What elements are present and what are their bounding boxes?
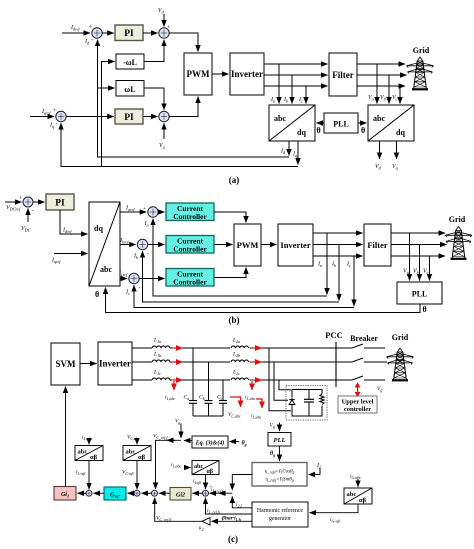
svg-text:-: -: [32, 209, 34, 215]
wire SB0 to PI: [33, 201, 45, 203]
svg-text:Inverter: Inverter: [231, 69, 263, 79]
svg-text:VDCref: VDCref: [6, 205, 21, 212]
wire theta feedback B: [106, 288, 427, 315]
wire beta-har to k2 amp: [212, 516, 253, 522]
wire Icref: [118, 271, 128, 279]
node Idref input: [62, 25, 93, 34]
Current Controller a: [166, 203, 214, 221]
wire SBb to CCb: [148, 244, 165, 246]
wire i1ref-f path: [211, 475, 252, 495]
PLL block B: [397, 282, 442, 304]
Gi2 block: [170, 488, 191, 501]
block -wL: [116, 54, 144, 69]
svg-text:αβ: αβ: [207, 469, 214, 475]
Current Controller c: [166, 269, 214, 287]
svg-text:Ib: Ib: [283, 97, 288, 104]
wire GVC to SCL: [94, 492, 105, 494]
wire phase a to L1a: [132, 347, 152, 349]
node Vd output: [375, 141, 382, 171]
svg-text:iG,abc: iG,abc: [350, 474, 361, 481]
node Vq output: [392, 141, 398, 171]
svg-text:Ibref: Ibref: [119, 238, 129, 245]
svg-text:Vg: Vg: [377, 386, 382, 392]
wire junction to summer SC3: [210, 492, 233, 494]
svg-text:Vc: Vc: [423, 269, 429, 276]
abc-dq transform T1: [269, 105, 315, 141]
svg-text:Vd: Vd: [375, 164, 382, 171]
wire i1ref-h to SC3 bottom: [206, 498, 253, 516]
svg-text:Icref: Icref: [118, 271, 128, 278]
svg-text:dq: dq: [396, 128, 405, 137]
breaker switch phase a: [352, 344, 385, 348]
wire S3 to PI2: [66, 116, 114, 118]
Upper level controller block: [338, 396, 377, 413]
Filter block A: [329, 53, 357, 96]
svg-text:Vd: Vd: [158, 8, 165, 15]
svg-text:iL,abc: iL,abc: [245, 395, 256, 402]
svg-text:-: -: [158, 218, 160, 224]
wire PI to dq-abc Idref: [60, 210, 88, 234]
svg-text:PLL: PLL: [274, 437, 286, 444]
svg-text:Inverter: Inverter: [99, 359, 131, 369]
node I2 input: [309, 463, 322, 475]
svg-text:Harmonic reference: Harmonic reference: [257, 507, 304, 514]
wire phase b to L1b: [132, 361, 152, 363]
wire iL-ab to summer SCL: [76, 461, 89, 490]
svg-text:Ib: Ib: [133, 254, 138, 261]
wire Eq out to VCref junction: [184, 440, 192, 442]
node theta-g input to Eq: [230, 441, 247, 447]
summer SBa: [144, 207, 160, 228]
PLL block C: [268, 433, 291, 447]
wire phase a L1a-PCC: [170, 347, 352, 349]
svg-text:(c): (c): [228, 534, 238, 544]
svg-text:Iqref: Iqref: [41, 109, 51, 116]
wire PWM to Inverter: [212, 73, 229, 75]
wire phase b Filter-Grid: [357, 74, 407, 76]
wire VC-ab to summer SC1: [122, 461, 137, 490]
svg-text:PI: PI: [124, 29, 134, 39]
wire phase b Inverter-Filter B: [313, 244, 363, 246]
wire wL out to S4 top: [144, 88, 164, 110]
load circuit loop: [292, 390, 322, 417]
svg-text:θ: θ: [423, 305, 427, 314]
Filter block B: [364, 224, 391, 266]
wire phase b Inverter-Filter: [264, 74, 328, 76]
wire Gi2 to SC2: [159, 492, 170, 494]
svg-text:Iq: Iq: [292, 152, 297, 159]
svg-text:-: -: [147, 251, 149, 257]
summer S3: [56, 111, 66, 121]
wire phase a Inverter-Filter B: [313, 232, 363, 234]
svg-text:L1b: L1b: [153, 352, 161, 358]
current arrow i2c red: [251, 379, 262, 381]
wire Iq feedback: [61, 123, 298, 166]
svg-text:Upper level: Upper level: [342, 399, 374, 406]
wire Ic feedback B: [134, 285, 354, 307]
Inverter block A: [230, 53, 264, 95]
wire phase c L1c-PCC: [170, 379, 352, 381]
wire S1 to PI: [102, 32, 114, 34]
svg-text:dq: dq: [297, 128, 306, 137]
svg-text:L1c: L1c: [153, 370, 161, 376]
svg-text:generator: generator: [269, 516, 291, 522]
inductor L2a: [230, 338, 250, 349]
wire phase c Filter-Grid B: [391, 255, 445, 257]
PWM block B: [234, 224, 261, 266]
svg-text:-: -: [91, 37, 93, 43]
svg-text:L2b: L2b: [232, 352, 240, 358]
current arrow i2a red: [251, 347, 262, 349]
svg-text:Eq. (3)&(4): Eq. (3)&(4): [195, 440, 225, 447]
svg-text:Gi2: Gi2: [176, 493, 185, 499]
wire phase b Filter-Grid B: [391, 244, 447, 246]
wire Iq to -wL input: [102, 62, 115, 167]
wire S4 to PWM bottom: [169, 97, 198, 117]
load capacitor: [304, 390, 314, 417]
wire SVM to Inverter C: [80, 363, 97, 365]
svg-text:SVM: SVM: [56, 359, 77, 369]
svg-text:L2a: L2a: [232, 338, 240, 344]
PI controller A2: [115, 109, 143, 124]
wire Ib feedback B: [143, 251, 340, 302]
wire -wL out to S2 bottom: [144, 40, 164, 62]
summer SB0: [23, 197, 33, 207]
wire Iaref: [120, 206, 146, 213]
current arrow i1a red: [172, 347, 183, 349]
wire CCc to PWM bottom: [214, 268, 246, 278]
node Vq input: [159, 123, 165, 149]
Gi1 block: [54, 487, 76, 501]
block wL: [116, 81, 144, 97]
summer SC3: [203, 490, 209, 496]
PLL block A: [324, 113, 358, 133]
wire Id feedback: [98, 40, 290, 157]
svg-text:Ia: Ia: [270, 97, 275, 104]
svg-text:Va: Va: [403, 269, 409, 276]
svg-text:VDC: VDC: [21, 226, 31, 233]
summer SC2: [152, 490, 158, 496]
svg-text:+: +: [143, 206, 146, 212]
grid tower C: [387, 348, 414, 380]
wire Id to wL input: [98, 87, 115, 89]
svg-text:Inverter: Inverter: [280, 240, 310, 250]
svg-text:θ: θ: [317, 126, 321, 135]
svg-text:Vg: Vg: [270, 423, 275, 429]
svg-text:PWM: PWM: [187, 69, 210, 79]
wire SC2 to SC1: [142, 492, 152, 494]
tap iLabc measurement red: [245, 381, 256, 402]
svg-text:Controller: Controller: [173, 278, 207, 287]
node iLabc label: [82, 435, 93, 445]
svg-text:PI: PI: [124, 113, 134, 123]
wire VCref-f to summer SC2: [153, 434, 181, 490]
tap Vc B: [423, 256, 430, 281]
wire phase c Inverter-Filter: [264, 85, 328, 87]
svg-text:dq: dq: [94, 224, 103, 233]
wire iG-ab to HRG: [310, 504, 359, 523]
svg-text:i2,f: i2,f: [236, 502, 243, 509]
svg-text:Ic: Ic: [125, 290, 130, 297]
grid tower A: [407, 57, 434, 89]
wire PI to S2: [143, 32, 158, 34]
svg-text:Ca: Ca: [184, 395, 190, 401]
svg-text:iG-αβ: iG-αβ: [330, 517, 340, 523]
svg-text:Breaker: Breaker: [350, 334, 378, 343]
svg-text:i1αβ: i1αβ: [193, 479, 201, 485]
svg-text:ωL: ωL: [124, 85, 135, 94]
svg-text:VC-αβ: VC-αβ: [122, 470, 133, 476]
svg-text:θg: θg: [242, 441, 247, 447]
wire PLL theta-g out: [270, 446, 280, 461]
tap Va: [368, 64, 377, 104]
node Id feedback label: [84, 37, 93, 46]
svg-text:Filter: Filter: [367, 240, 388, 250]
svg-text:abc: abc: [126, 449, 136, 456]
svg-text:θ: θ: [361, 126, 365, 135]
node Vd input: [158, 8, 171, 31]
GVC block: [104, 487, 126, 500]
wire VCref-h to SC2 bottom: [155, 498, 202, 523]
tap Vb: [380, 75, 389, 104]
summer SBc: [125, 273, 141, 296]
svg-text:Ia: Ia: [144, 221, 149, 228]
abc-ab transform TC4: [344, 488, 372, 504]
Current Controller b: [166, 236, 214, 254]
svg-text:Vq: Vq: [159, 143, 165, 150]
wire phase a Filter-Grid B: [391, 232, 445, 234]
tap Vc: [392, 86, 400, 104]
svg-text:abc: abc: [347, 491, 357, 498]
svg-text:iL_refd=I1Cosθg: iL_refd=I1Cosθg: [265, 470, 295, 475]
svg-text:-: -: [56, 121, 58, 127]
node Iq feedback label: [49, 121, 58, 129]
svg-text:Ib: Ib: [331, 262, 336, 269]
svg-text:αβ: αβ: [138, 454, 146, 461]
wire phase b L1b-PCC: [170, 361, 352, 363]
svg-text:Vb: Vb: [413, 269, 419, 276]
svg-text:Cb: Cb: [199, 395, 205, 401]
wire phase a Inverter-Filter: [264, 63, 328, 65]
svg-text:Idref: Idref: [62, 228, 72, 235]
wire PLL theta to T1: [317, 122, 325, 124]
wire SCL to Gi1: [78, 492, 87, 494]
wire i2-f path: [232, 497, 252, 510]
breaker switch phase c: [352, 376, 385, 380]
svg-text:(b): (b): [229, 315, 240, 325]
wire load stub phase b: [274, 362, 291, 400]
wire SC1 to GVC: [128, 492, 135, 494]
tap VCabc measurement red: [228, 397, 241, 419]
tap Ic B: [346, 256, 354, 306]
svg-text:abc: abc: [78, 449, 88, 456]
summer SBb: [133, 239, 149, 260]
wire capacitor neutral bus: [193, 415, 223, 417]
SVM block: [51, 343, 80, 385]
svg-text:θg: θg: [270, 451, 275, 457]
svg-text:PLL: PLL: [333, 120, 349, 129]
capacitor Cc: [217, 380, 227, 416]
svg-text:Iaref: Iaref: [125, 206, 135, 213]
amplifier k2: [199, 518, 210, 532]
svg-text:Grid: Grid: [413, 46, 430, 55]
wire phase c Filter-Grid: [357, 85, 405, 87]
node VDCref input: [5, 196, 23, 212]
wire load stub phase c: [279, 380, 291, 390]
nonlinear load dashed box: [286, 386, 327, 421]
wire Ia feedback B: [153, 219, 327, 296]
abc-ab transform TC3: [192, 461, 219, 476]
inductor L1a: [152, 338, 170, 349]
svg-text:PLL: PLL: [412, 290, 428, 299]
tap Ia: [270, 64, 279, 104]
load resistor: [319, 394, 326, 406]
svg-text:βhar·i1,h: βhar·i1,h: [221, 516, 242, 522]
svg-text:Grid: Grid: [449, 215, 466, 224]
svg-text:Filter: Filter: [332, 70, 354, 80]
PI controller B: [46, 194, 74, 210]
breaker switch phase b: [352, 358, 387, 362]
diode D: [288, 398, 296, 407]
svg-text:i1_ref,h: i1_ref,h: [207, 508, 220, 515]
svg-text:Iq: Iq: [49, 123, 54, 130]
node Vg to reference: [175, 419, 181, 438]
tap Va B: [403, 233, 410, 281]
wire phase c Inverter-Filter B: [313, 255, 363, 257]
tap Ia B: [317, 233, 327, 295]
summer SC1: [134, 490, 140, 496]
Inverter block C: [98, 342, 132, 385]
capacitor Ca: [184, 348, 198, 416]
wire PI2 to S4: [143, 116, 158, 118]
inductor L2c: [230, 370, 250, 381]
svg-text:L1a: L1a: [153, 338, 161, 344]
inductor L2b: [230, 352, 250, 363]
svg-text:(a): (a): [229, 175, 240, 185]
wire S2 to PWM top: [169, 33, 198, 52]
svg-text:-ωL: -ωL: [123, 58, 137, 67]
svg-text:GVC: GVC: [110, 493, 120, 499]
svg-text:iL_refq=I1Sinθg: iL_refq=I1Sinθg: [265, 478, 294, 483]
Eq block: [192, 436, 228, 448]
inductor L1b: [152, 352, 170, 363]
svg-text:Cc: Cc: [217, 395, 223, 401]
svg-text:iL,abc: iL,abc: [82, 435, 93, 442]
Harmonic reference generator block: [252, 502, 308, 527]
wire breaker to upper level controller red: [355, 382, 361, 397]
summer S4: [159, 111, 169, 121]
svg-text:Va: Va: [368, 95, 374, 102]
svg-text:Idref: Idref: [70, 25, 80, 32]
svg-text:αβ: αβ: [90, 454, 98, 461]
wire PWM to Inverter B: [261, 244, 277, 246]
grid tower B: [445, 227, 472, 259]
node Iqref input: [30, 108, 57, 117]
PCC bus: [325, 330, 342, 387]
current arrow i2b red: [251, 361, 262, 363]
node Vg input PLL: [270, 423, 280, 432]
wire Ibref: [119, 238, 136, 245]
node VCabc label: [127, 435, 140, 445]
wire PLL theta to T2: [358, 122, 367, 124]
svg-text:Gi1: Gi1: [61, 492, 69, 498]
svg-text:Controller: Controller: [173, 212, 207, 221]
reference equations block: [252, 463, 307, 487]
tap Ic: [298, 86, 306, 104]
wire phase a Filter-Grid: [357, 63, 405, 65]
svg-text:Vc: Vc: [392, 95, 398, 102]
wire i1-ab to summer SC3: [193, 475, 213, 491]
svg-text:Iqref: Iqref: [51, 258, 61, 265]
inductor L1c: [152, 370, 170, 381]
svg-text:PWM: PWM: [237, 240, 259, 250]
node theta input B: [95, 290, 99, 299]
wire Gi1 to SVM: [65, 387, 67, 487]
tap Vb B: [413, 245, 420, 281]
svg-text:Ic: Ic: [298, 97, 303, 104]
capacitor Cb: [199, 362, 213, 416]
svg-text:i1,abc: i1,abc: [171, 462, 182, 469]
svg-text:iL,abc: iL,abc: [251, 413, 262, 420]
tap Ib B: [331, 245, 339, 301]
svg-text:Ia: Ia: [317, 262, 322, 269]
svg-text:i1,abc: i1,abc: [165, 395, 176, 402]
abc-ab transform TC1: [75, 446, 103, 462]
Inverter block B: [278, 224, 313, 266]
svg-text:k2: k2: [199, 526, 203, 532]
abc-dq transform T2: [368, 105, 414, 141]
svg-text:abc: abc: [373, 114, 385, 123]
wire load stub phase a: [269, 348, 291, 411]
tap i1abc measurement red: [165, 381, 176, 402]
svg-text:αβ: αβ: [359, 497, 367, 504]
svg-text:iL-αβ: iL-αβ: [76, 470, 85, 476]
svg-text:abc: abc: [100, 265, 112, 274]
wire CCa to PWM top: [214, 212, 246, 223]
abc-ab transform TC2: [123, 446, 151, 462]
svg-text:θ: θ: [95, 290, 99, 299]
wire SBa to CCa: [158, 211, 164, 213]
node i1abc input: [171, 462, 191, 469]
tap Ib: [283, 75, 292, 104]
summer S1: [92, 28, 102, 38]
svg-text:-: -: [139, 285, 141, 291]
wire SC3 to Gi2: [193, 492, 203, 494]
svg-text:PCC: PCC: [325, 330, 342, 340]
svg-text:Controller: Controller: [173, 245, 207, 254]
wire SBc to CCc: [139, 278, 164, 280]
wire CCb to PWM left: [214, 244, 233, 246]
PWM block A: [184, 53, 212, 95]
summer SCL: [86, 490, 92, 496]
node VDC input: [21, 209, 34, 233]
svg-text:Ic: Ic: [346, 262, 351, 269]
wire phase c to L1c: [132, 379, 152, 381]
dq-abc transform TB: [89, 202, 120, 286]
svg-text:abc: abc: [274, 114, 286, 123]
svg-text:PI: PI: [55, 199, 65, 209]
svg-text:L2c: L2c: [232, 370, 240, 376]
svg-text:Grid: Grid: [392, 333, 409, 342]
summer S2: [159, 28, 169, 38]
current arrow i1b red: [172, 361, 183, 363]
svg-text:Vb: Vb: [380, 95, 386, 102]
svg-text:Vq: Vq: [392, 164, 398, 171]
svg-text:abc: abc: [194, 464, 203, 470]
svg-text:controller: controller: [344, 406, 371, 413]
tap iL2abc measurement red: [251, 399, 262, 420]
PI controller A1: [115, 25, 143, 41]
